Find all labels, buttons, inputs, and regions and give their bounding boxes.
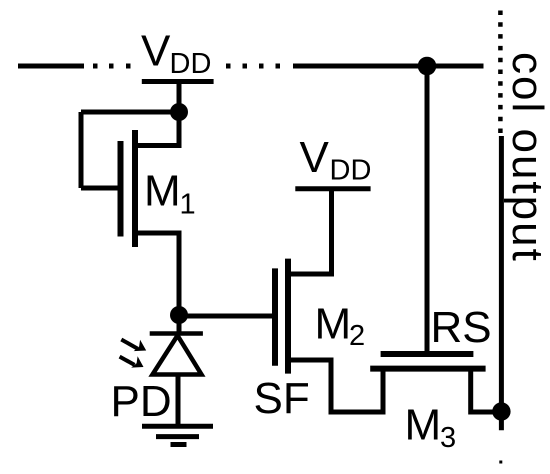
wire: RS vertical line from rail to M3 gate	[425, 66, 430, 354]
light arrow 1	[121, 340, 146, 352]
svg-text:col output: col output	[503, 52, 550, 263]
transistor M3 channel bar	[370, 366, 485, 372]
wire: node B to M2 gate	[179, 314, 272, 319]
photodiode PD triangle	[153, 336, 202, 375]
svg-text:DD: DD	[330, 155, 372, 187]
wire: column output solid line	[499, 136, 504, 430]
wire: row-select rail solid right segment	[293, 64, 484, 69]
wire: gate loop vertical	[79, 112, 84, 188]
wire: gate loop to M1 gate	[81, 186, 119, 191]
svg-text:M: M	[315, 300, 352, 349]
wire: node B to photodiode cathode	[177, 315, 182, 334]
transistor M1 channel bar	[132, 130, 138, 247]
svg-text:RS: RS	[431, 303, 492, 352]
power symbol VDD2 bar	[295, 186, 370, 191]
wire: node A to gate loop (top)	[81, 110, 179, 115]
wire: photodiode anode to ground	[176, 375, 181, 427]
light arrow 2	[120, 356, 144, 367]
svg-text:SF: SF	[254, 374, 310, 423]
wire: M1 source connection	[136, 233, 179, 315]
transistor M2 gate bar	[272, 268, 278, 365]
svg-text:3: 3	[440, 422, 456, 454]
transistor M3 gate bar	[381, 351, 474, 357]
svg-text:V: V	[141, 27, 171, 76]
wire: M2 source down and to M3 drain	[289, 360, 383, 412]
svg-text:V: V	[300, 133, 330, 182]
wire: M2 drain connection from VDD2	[289, 189, 332, 274]
svg-text:PD: PD	[111, 377, 172, 426]
wire: column output dotted top	[498, 11, 503, 134]
wire: row-select rail dotted segment left	[93, 64, 131, 69]
node B: photodiode / SF gate junction	[170, 306, 188, 324]
svg-text:M: M	[144, 167, 181, 216]
node D: column output junction	[492, 402, 510, 420]
svg-text:M: M	[405, 401, 442, 450]
svg-text:2: 2	[349, 320, 365, 352]
wire: column output dotted continuation bottom	[499, 461, 502, 464]
wire: M1 drain connection	[136, 112, 179, 146]
node: junction of RS rail and RS gate line	[418, 57, 437, 76]
wire: M3 source to column output	[471, 369, 497, 412]
wire: VDD1 stub down to node A	[177, 82, 182, 113]
transistor M2 channel bar	[285, 259, 291, 374]
wire: row-select rail solid left segment	[18, 64, 84, 69]
power symbol VDD1 bar (left supply tap)	[142, 79, 214, 84]
node A: M1 drain/gate junction	[170, 103, 188, 121]
ground symbol	[142, 426, 213, 444]
svg-text:1: 1	[180, 189, 196, 221]
transistor M1 gate bar	[118, 141, 124, 237]
photodiode PD cathode bar	[150, 331, 203, 336]
wire: row-select rail dotted segment right	[226, 64, 280, 69]
svg-text:DD: DD	[170, 48, 212, 80]
